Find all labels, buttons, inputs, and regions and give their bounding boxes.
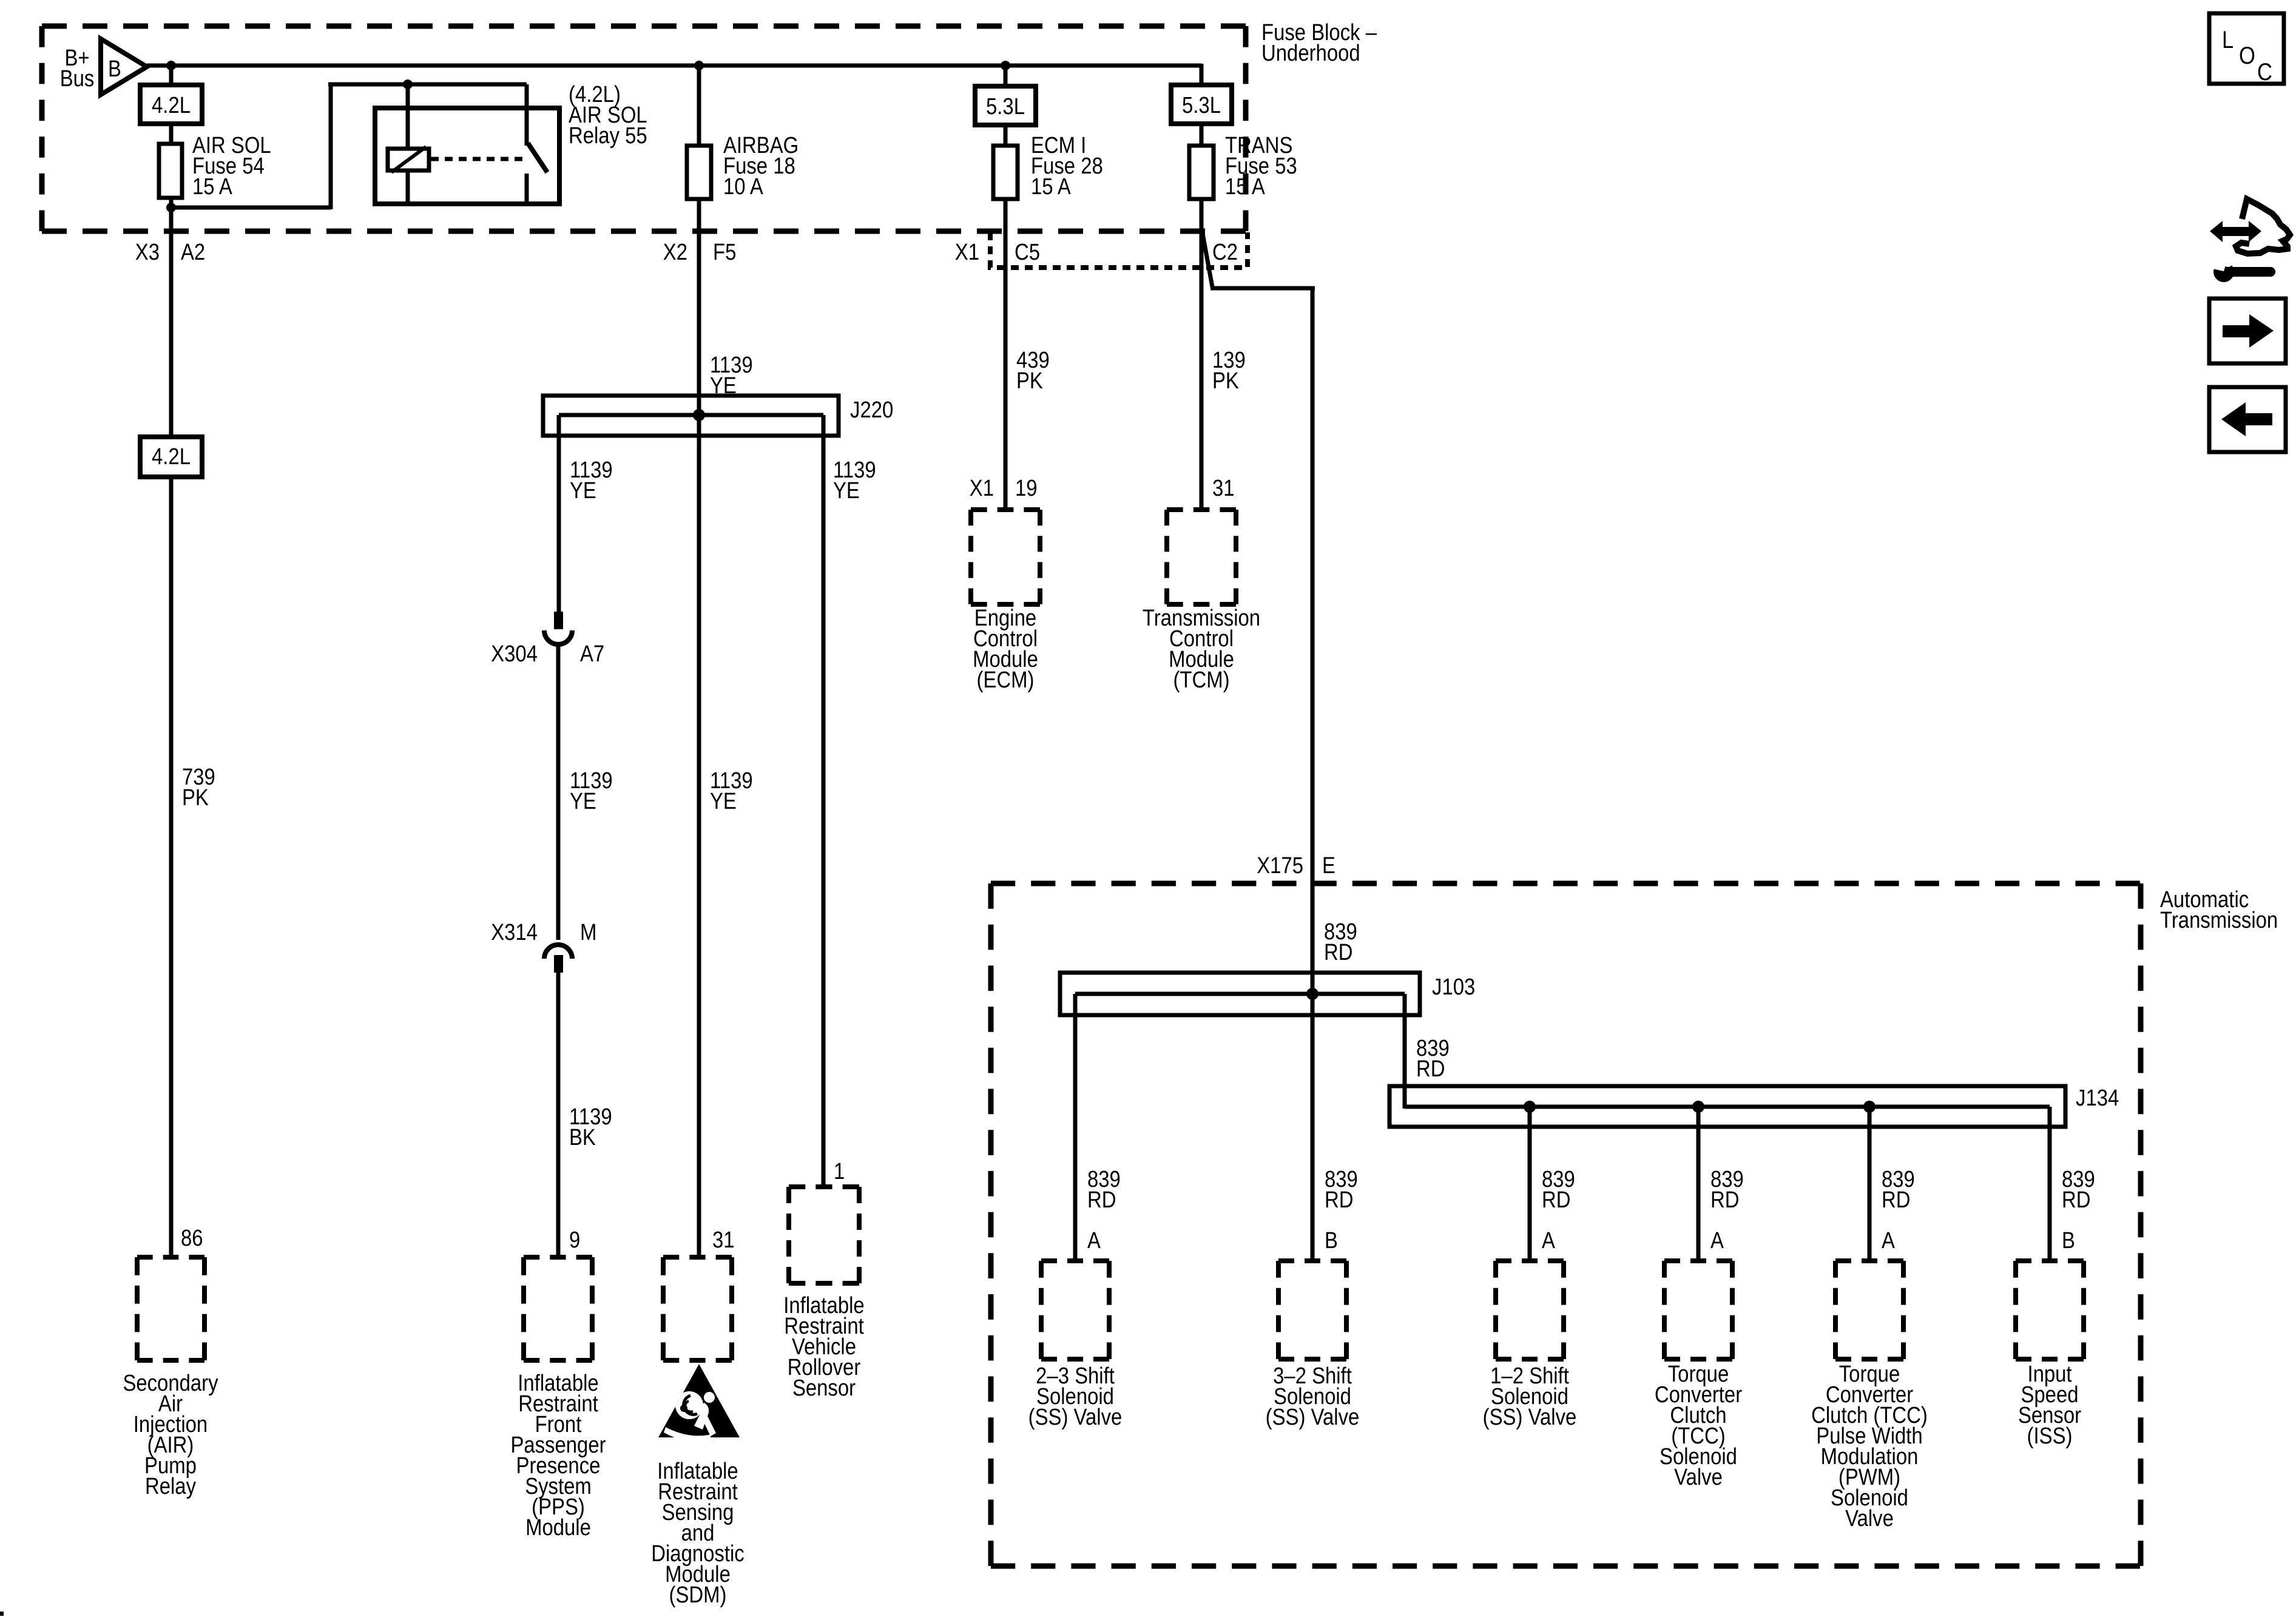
label pin A 2-3 xyxy=(1087,1228,1101,1254)
splice pack J103 box xyxy=(1060,973,1420,1015)
svg-text:15 A: 15 A xyxy=(192,174,232,200)
label pin 31 SDM xyxy=(712,1227,735,1253)
svg-text:(SDM): (SDM) xyxy=(669,1582,727,1608)
label pin 9 xyxy=(569,1227,580,1253)
svg-text:X2: X2 xyxy=(663,240,687,265)
label wire 1139 YE left lower xyxy=(570,768,613,814)
label TCC PWM solenoid xyxy=(1811,1362,1928,1531)
svg-text:X3: X3 xyxy=(135,240,160,265)
svg-text:(ECM): (ECM) xyxy=(977,667,1035,693)
svg-text:RD: RD xyxy=(1882,1187,1911,1213)
node J220 junction xyxy=(693,409,705,421)
label pin A tcc xyxy=(1710,1228,1724,1254)
label wire 439 PK xyxy=(1016,348,1050,394)
svg-text:PK: PK xyxy=(1016,368,1043,394)
label wire 1139 BK xyxy=(569,1104,612,1150)
wire bus to 5.3L ecm xyxy=(1004,66,1008,87)
wire 739 PK upper xyxy=(169,208,174,438)
label 2-3 shift solenoid xyxy=(1028,1363,1123,1430)
svg-text:F5: F5 xyxy=(713,240,736,265)
label fuse 18 xyxy=(723,133,799,200)
wire J103 mid leg 839 RD xyxy=(1311,994,1315,1263)
svg-text:5.3L: 5.3L xyxy=(986,94,1025,120)
wire trans branch diagonal xyxy=(1203,234,1212,287)
fuse F28 ECM I 15A xyxy=(993,146,1018,199)
relay coil-switch dashed link xyxy=(431,157,524,161)
engine box 5.3L trans xyxy=(1171,85,1232,124)
fuse F18 AIRBAG 10A xyxy=(687,146,711,199)
label wire 839 RD main xyxy=(1324,919,1357,965)
svg-text:(SS) Valve: (SS) Valve xyxy=(1266,1405,1360,1430)
label pin X1 19 xyxy=(970,476,1038,501)
label pin A 1-2 xyxy=(1542,1228,1555,1254)
svg-text:A: A xyxy=(1882,1228,1895,1254)
relay K55 AIR SOL box xyxy=(375,108,559,204)
wire 439 PK xyxy=(1004,198,1008,512)
svg-text:PK: PK xyxy=(1212,368,1239,394)
svg-text:C: C xyxy=(2257,59,2272,86)
svg-text:A: A xyxy=(1710,1228,1724,1254)
engine box 4.2L upper xyxy=(140,85,202,124)
wire J220 left leg xyxy=(557,415,561,613)
label Fuse Block Underhood xyxy=(1261,20,1377,66)
svg-text:E: E xyxy=(1322,853,1335,879)
component 2-3 shift solenoid box xyxy=(1041,1261,1109,1359)
label fuse 54 xyxy=(192,133,271,200)
svg-text:10 A: 10 A xyxy=(723,174,763,200)
svg-text:A2: A2 xyxy=(181,240,205,265)
label Automatic Transmission xyxy=(2160,887,2278,933)
label relay 55 xyxy=(569,82,647,149)
label pin 86 xyxy=(181,1226,203,1251)
svg-text:J134: J134 xyxy=(2076,1085,2119,1111)
component TCC PWM solenoid box xyxy=(1835,1261,1903,1359)
wire 739 PK lower xyxy=(169,476,174,1260)
svg-text:Valve: Valve xyxy=(1674,1465,1723,1490)
svg-text:Sensor: Sensor xyxy=(792,1376,856,1401)
splice pack J134 box xyxy=(1389,1086,2065,1127)
label connector X3 A2 xyxy=(135,240,205,265)
engine box 4.2L lower xyxy=(140,437,202,477)
node bus-ecm junction xyxy=(1001,61,1010,70)
splice J103 bus bar xyxy=(1075,992,1405,996)
svg-text:4.2L: 4.2L xyxy=(152,444,191,470)
label pin A pwm xyxy=(1882,1228,1895,1254)
wire J134 end leg iss xyxy=(2048,1107,2052,1263)
label B+ Bus xyxy=(60,46,95,92)
wire fuse 54 to node xyxy=(169,197,174,209)
label TCM xyxy=(1143,606,1260,693)
automatic transmission dashed box xyxy=(991,883,2141,1566)
svg-text:RD: RD xyxy=(1416,1056,1445,1082)
node J103 junction xyxy=(1306,988,1319,1000)
component 3-2 shift solenoid box xyxy=(1278,1261,1346,1359)
label 3-2 shift solenoid xyxy=(1266,1363,1360,1430)
icon arrow prev box xyxy=(2209,387,2286,452)
svg-text:1: 1 xyxy=(834,1159,845,1184)
wire 1139 YE to J220 xyxy=(697,198,701,415)
label pin 31 tcm xyxy=(1212,476,1235,501)
component SDM box xyxy=(663,1257,732,1360)
svg-text:A7: A7 xyxy=(580,641,604,667)
label wire 1139 YE right xyxy=(833,457,876,504)
svg-text:J103: J103 xyxy=(1432,974,1475,1000)
label connector X1 C5 xyxy=(955,240,1040,265)
svg-text:PK: PK xyxy=(182,785,209,811)
wire J134 tap tcc xyxy=(1697,1107,1701,1263)
svg-text:B: B xyxy=(1325,1228,1338,1254)
svg-text:4.2L: 4.2L xyxy=(152,93,191,118)
svg-text:Relay 55: Relay 55 xyxy=(569,123,647,149)
svg-text:BK: BK xyxy=(569,1125,596,1150)
fuse F53 TRANS 15A xyxy=(1189,146,1214,199)
label SDM xyxy=(651,1459,745,1608)
svg-text:5.3L: 5.3L xyxy=(1182,93,1221,118)
wire 4.2L box to fuse 54 xyxy=(169,123,174,145)
label wire 839 RD 1-2 xyxy=(1542,1167,1575,1213)
svg-text:19: 19 xyxy=(1015,476,1038,501)
stray mark bottom left xyxy=(0,1612,4,1616)
wire trans branch horizontal xyxy=(1210,286,1315,291)
component TCC solenoid box xyxy=(1664,1261,1732,1359)
fuse block underhood dashed box xyxy=(42,26,1246,231)
wire 839 RD main xyxy=(1311,286,1315,994)
svg-text:(TCM): (TCM) xyxy=(1173,667,1229,693)
label J103 xyxy=(1432,974,1475,1000)
component PPS module box xyxy=(524,1257,592,1360)
node relay coil tap xyxy=(403,79,413,89)
svg-text:(SS) Valve: (SS) Valve xyxy=(1483,1405,1577,1430)
wire node to relay loop xyxy=(171,84,527,209)
svg-text:L: L xyxy=(2222,27,2234,53)
svg-text:(ISS): (ISS) xyxy=(2027,1423,2073,1449)
label J134 xyxy=(2076,1085,2119,1111)
svg-text:A: A xyxy=(1087,1228,1101,1254)
svg-text:31: 31 xyxy=(1212,476,1235,501)
relay switch output stub xyxy=(525,174,529,204)
svg-text:X175: X175 xyxy=(1257,853,1303,879)
node J134 junction tcc xyxy=(1692,1101,1704,1113)
node bus-fuse54 junction xyxy=(166,61,176,70)
label connector C2 xyxy=(1212,240,1238,265)
svg-text:Valve: Valve xyxy=(1845,1506,1894,1531)
label X314 M xyxy=(491,920,596,945)
splice pack J220 box xyxy=(543,396,839,436)
label ECM xyxy=(973,606,1038,693)
label wire 1139 YE mid xyxy=(710,768,753,814)
svg-text:RD: RD xyxy=(1087,1187,1116,1213)
svg-text:Transmission: Transmission xyxy=(2160,908,2278,933)
label ISS xyxy=(2018,1362,2081,1449)
wire 139 PK xyxy=(1200,198,1204,512)
node J134 junction 1-2 xyxy=(1524,1101,1536,1113)
svg-text:86: 86 xyxy=(181,1226,203,1251)
label wire 839 RD 2-3 xyxy=(1087,1167,1121,1213)
component ECM box xyxy=(971,510,1040,604)
node bus-airbag junction xyxy=(694,61,704,70)
label TCC solenoid xyxy=(1655,1362,1743,1490)
svg-text:C2: C2 xyxy=(1212,240,1238,265)
svg-text:RD: RD xyxy=(1710,1187,1740,1213)
wire relay switch common xyxy=(525,84,529,146)
svg-text:9: 9 xyxy=(569,1227,580,1253)
svg-text:YE: YE xyxy=(833,478,860,504)
svg-text:31: 31 xyxy=(712,1227,735,1253)
component TCM box xyxy=(1167,510,1236,604)
svg-text:M: M xyxy=(580,920,596,945)
svg-text:YE: YE xyxy=(570,478,596,504)
svg-text:15 A: 15 A xyxy=(1225,174,1265,200)
svg-text:X1: X1 xyxy=(955,240,979,265)
wire J134 tap pwm xyxy=(1868,1107,1872,1263)
wire coil feed xyxy=(406,84,410,150)
relay coil xyxy=(388,147,429,172)
svg-text:15 A: 15 A xyxy=(1031,174,1071,200)
icon LOC box xyxy=(2209,13,2284,86)
svg-text:X314: X314 xyxy=(491,920,538,945)
wire 5.3L to fuse 53 xyxy=(1200,123,1204,147)
connector X304 pin A7 xyxy=(544,612,572,644)
wire J134 tap 1-2 xyxy=(1528,1107,1532,1263)
svg-text:J220: J220 xyxy=(850,397,893,423)
wire 1139 BK xyxy=(556,973,561,1260)
svg-text:C5: C5 xyxy=(1015,240,1040,265)
svg-text:(SS) Valve: (SS) Valve xyxy=(1028,1405,1123,1430)
svg-text:B: B xyxy=(2062,1228,2075,1254)
svg-text:Relay: Relay xyxy=(145,1474,196,1499)
label pin 1 rollover xyxy=(834,1159,845,1184)
svg-text:RD: RD xyxy=(1325,1187,1354,1213)
label wire 839 RD pwm xyxy=(1882,1167,1915,1213)
component Secondary Air Injection Pump Relay box xyxy=(137,1257,204,1360)
label wire 1139 YE left upper xyxy=(570,457,613,504)
label AIR pump relay xyxy=(123,1371,218,1499)
label pin B iss xyxy=(2062,1228,2075,1254)
svg-text:X1: X1 xyxy=(970,476,994,501)
label J220 xyxy=(850,397,893,423)
power symbol B+ bus triangle xyxy=(101,39,147,95)
svg-text:A: A xyxy=(1542,1228,1555,1254)
label fuse 28 xyxy=(1031,133,1103,200)
wire J220 right leg xyxy=(822,415,826,1184)
wire J220 mid leg 1139 YE xyxy=(697,415,701,1260)
component ISS box xyxy=(2016,1261,2084,1359)
svg-text:B: B xyxy=(108,56,121,82)
svg-text:O: O xyxy=(2239,42,2255,69)
label wire 839 RD link xyxy=(1416,1036,1450,1082)
label wire 139 PK xyxy=(1212,348,1246,394)
svg-text:X304: X304 xyxy=(491,641,538,667)
component 1-2 shift solenoid box xyxy=(1496,1261,1564,1359)
label pin B 3-2 xyxy=(1325,1228,1338,1254)
svg-text:YE: YE xyxy=(710,789,737,814)
node J134 junction pwm xyxy=(1863,1101,1876,1113)
label wire 839 RD iss xyxy=(2062,1167,2095,1213)
component rollover sensor box xyxy=(789,1187,859,1283)
label wire 839 RD tcc xyxy=(1710,1167,1744,1213)
icon arrow next box xyxy=(2209,299,2286,363)
label connector X2 F5 xyxy=(663,240,737,265)
label rollover sensor xyxy=(783,1293,864,1401)
wire coil to box bottom xyxy=(406,169,410,204)
label X304 A7 xyxy=(491,641,604,667)
svg-text:RD: RD xyxy=(2062,1187,2091,1213)
label PPS module xyxy=(510,1371,606,1541)
wire X304 to X314 xyxy=(556,644,561,940)
wire B+ bus horizontal xyxy=(147,64,1201,85)
splice J220 bus bar xyxy=(559,413,823,417)
icon adjust tools xyxy=(2210,199,2290,282)
label fuse 53 xyxy=(1225,133,1297,200)
label 1-2 shift solenoid xyxy=(1483,1363,1577,1430)
wire 5.3L to fuse 28 xyxy=(1004,124,1008,147)
wire bus to fuse 18 xyxy=(697,66,701,147)
fuse F54 AIR SOL 15A xyxy=(159,144,182,198)
relay switch blade xyxy=(528,143,547,172)
node fuse54 output junction xyxy=(166,203,176,212)
label wire 1139 YE feed xyxy=(710,353,753,399)
svg-text:Bus: Bus xyxy=(60,66,95,92)
wire bus to 4.2L box xyxy=(169,66,174,86)
svg-text:YE: YE xyxy=(570,789,596,814)
label connector X175 E xyxy=(1257,853,1335,879)
svg-text:RD: RD xyxy=(1324,940,1353,965)
connector block dotted outline xyxy=(990,232,1248,268)
svg-text:Module: Module xyxy=(525,1515,591,1541)
label wire 839 RD 3-2 xyxy=(1325,1167,1358,1213)
label wire 739 PK xyxy=(182,765,215,811)
splice J134 bus bar xyxy=(1405,1105,2050,1109)
wire J103 right leg xyxy=(1403,994,1407,1109)
wire J103 left leg 839 RD xyxy=(1073,994,1078,1263)
connector X314 pin M xyxy=(544,945,572,973)
svg-text:RD: RD xyxy=(1542,1187,1571,1213)
svg-text:Underhood: Underhood xyxy=(1261,41,1360,66)
engine box 5.3L ecm xyxy=(975,86,1036,125)
